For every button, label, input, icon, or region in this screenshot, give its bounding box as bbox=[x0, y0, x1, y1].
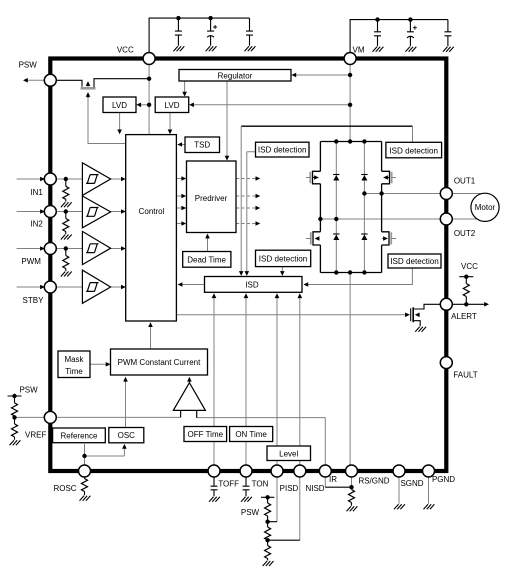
buffer A3 schmitt PWM bbox=[82, 231, 110, 264]
svg-text:PWM Constant Current: PWM Constant Current bbox=[118, 358, 201, 367]
resistor RS current sense external bbox=[325, 477, 357, 511]
svg-text:PSW: PSW bbox=[241, 508, 260, 517]
ground SGND external bbox=[394, 477, 405, 509]
wire Predriver dashed gate drive row4 bbox=[236, 223, 257, 225]
pin TOFF bbox=[208, 465, 220, 477]
pin VCC bbox=[143, 53, 155, 65]
svg-text:STBY: STBY bbox=[23, 296, 45, 305]
svg-text:PWM: PWM bbox=[21, 257, 41, 266]
svg-text:ISD detection: ISD detection bbox=[259, 254, 308, 263]
block TSD bbox=[185, 137, 220, 153]
block ISD detection U5 bbox=[256, 250, 311, 266]
node H-bridge top rail (VM) bbox=[320, 141, 381, 143]
svg-text:PISD: PISD bbox=[280, 484, 299, 493]
pin FAULT bbox=[440, 357, 452, 369]
wire VM sense drop to ISD block top bbox=[240, 126, 242, 273]
wire Control to Predriver row3 bbox=[176, 207, 183, 209]
wire PWM pin input arrow bbox=[17, 248, 42, 250]
wire VM sense bus to ISD detection blocks bbox=[241, 125, 412, 127]
wire body-diode column left bbox=[335, 142, 337, 273]
wire ALERT external output arrow bbox=[452, 302, 489, 307]
wire PWM pin to buffer bbox=[57, 248, 83, 250]
wire buffer4 out to Control bbox=[111, 286, 124, 288]
wire Regulator input from VM node bbox=[293, 74, 350, 76]
pin STBY bbox=[44, 281, 56, 293]
TEXT_START bbox=[19, 46, 496, 517]
diode D2 body diode upper-right bbox=[361, 175, 367, 181]
svg-text:TOFF: TOFF bbox=[218, 480, 239, 489]
svg-text:Predriver: Predriver bbox=[195, 194, 228, 203]
block LVD U2 bbox=[155, 97, 189, 113]
block PWM Constant Current bbox=[111, 349, 208, 375]
diode D3 body diode lower-left bbox=[333, 234, 339, 240]
wire STBY pin input arrow bbox=[17, 286, 42, 288]
block Dead Time bbox=[183, 252, 231, 268]
wire NISD external riser bbox=[299, 477, 301, 540]
wire TOFF pin to ISD block bbox=[213, 296, 215, 465]
wire PISD external riser bbox=[276, 477, 278, 522]
svg-text:ISD: ISD bbox=[245, 281, 259, 290]
block ISD bbox=[205, 277, 303, 293]
wire Control to Predriver row2 bbox=[176, 195, 183, 197]
svg-text:OFF Time: OFF Time bbox=[188, 430, 224, 439]
block LVD U1 bbox=[103, 97, 136, 113]
svg-text:FAULT: FAULT bbox=[453, 371, 477, 380]
svg-text:OUT1: OUT1 bbox=[454, 177, 476, 186]
wire Control to Predriver row4 bbox=[176, 223, 183, 225]
wire OUT1 node to OUT1 pin bbox=[364, 193, 440, 195]
svg-text:VM: VM bbox=[353, 46, 365, 55]
block Control bbox=[126, 135, 177, 321]
svg-text:RS/GND: RS/GND bbox=[358, 477, 389, 486]
svg-text:ON Time: ON Time bbox=[235, 430, 267, 439]
wire body-diode column right bbox=[363, 142, 365, 273]
pin ROSC bbox=[79, 465, 91, 477]
svg-text:IR: IR bbox=[329, 475, 337, 484]
block Reference bbox=[53, 428, 106, 443]
wire ISD detection U6 to ISD block bbox=[306, 268, 412, 285]
capacitor TON external bbox=[241, 477, 252, 502]
wire Control to Predriver row1 bbox=[176, 178, 183, 180]
svg-text:OUT2: OUT2 bbox=[454, 229, 476, 238]
pin OUT1 bbox=[440, 188, 452, 200]
wire OUT2 node to OUT2 pin bbox=[320, 218, 440, 220]
transistor Q3 low-side left bbox=[306, 232, 321, 245]
capacitor C1 VCC bus bbox=[149, 18, 249, 52]
svg-text:NISD: NISD bbox=[305, 484, 324, 493]
transistor Q5 PSW power switch bbox=[57, 79, 150, 98]
buffer A1 schmitt IN1 bbox=[82, 163, 110, 196]
svg-text:ISD detection: ISD detection bbox=[390, 257, 439, 266]
capacitor C2 VCC bus electrolytic bbox=[206, 25, 218, 51]
node H-bridge bottom rail bbox=[320, 272, 381, 274]
pin NISD bbox=[294, 465, 306, 477]
resistor PWM pull-down bbox=[61, 249, 72, 277]
transistor Q1 high-side left bbox=[306, 171, 320, 184]
svg-text:IN1: IN1 bbox=[30, 188, 43, 197]
svg-text:PGND: PGND bbox=[432, 475, 455, 484]
pin RS/GND bbox=[346, 465, 358, 477]
block Predriver bbox=[187, 161, 237, 233]
block ISD detection U3 bbox=[256, 142, 310, 157]
wire VM internal rail (VM pin down to bridge top rail) bbox=[349, 65, 351, 142]
wire PSW pin arrow out bbox=[23, 78, 44, 83]
block Regulator bbox=[179, 70, 291, 82]
svg-text:ROSC: ROSC bbox=[53, 484, 76, 493]
wire H-bridge left column bbox=[319, 142, 321, 273]
svg-text:ALERT: ALERT bbox=[451, 312, 477, 321]
svg-text:Level: Level bbox=[279, 449, 298, 458]
pin TON bbox=[240, 465, 252, 477]
svg-text:ISD detection: ISD detection bbox=[258, 145, 307, 154]
pin SGND bbox=[393, 465, 405, 477]
ground PGND external bbox=[424, 477, 435, 509]
pin ALERT bbox=[440, 298, 452, 310]
svg-text:LVD: LVD bbox=[165, 101, 180, 110]
wire LVD U1 to Control bbox=[119, 113, 121, 133]
wire VM sense drop to ISD detection U4 bbox=[412, 126, 414, 142]
wire bridge center to RS/GND pin bbox=[349, 273, 351, 466]
svg-text:Mask: Mask bbox=[64, 355, 84, 364]
wire Reference to OSC and ROSC bbox=[85, 443, 125, 465]
svg-text:Time: Time bbox=[65, 367, 83, 376]
resistor divider PISD/NISD external bbox=[261, 497, 300, 566]
block ISD detection U6 bbox=[388, 254, 441, 268]
svg-text:OSC: OSC bbox=[118, 431, 136, 440]
op-amp current comparator bbox=[173, 383, 205, 418]
svg-text:Regulator: Regulator bbox=[218, 71, 253, 80]
wire IN1 pin to buffer bbox=[57, 178, 83, 180]
diode D1 body diode upper-left bbox=[333, 175, 339, 181]
pin PGND bbox=[423, 465, 435, 477]
wire ALERT pin to transistor drain bbox=[413, 304, 440, 309]
pin IN1 bbox=[44, 173, 56, 185]
pin IN2 bbox=[44, 206, 56, 218]
svg-text:TON: TON bbox=[252, 480, 269, 489]
wire TSD to Control bbox=[180, 144, 186, 146]
motor M1 bbox=[471, 193, 499, 221]
wire LVD U2 to Control bbox=[169, 113, 171, 133]
resistor divider VREF external bbox=[8, 396, 22, 445]
wire LVD U2 input from VM node bbox=[191, 104, 351, 106]
pin VM bbox=[344, 53, 356, 65]
wire Regulator to LVD U2 bbox=[184, 81, 186, 95]
buffer A4 schmitt STBY bbox=[82, 270, 110, 303]
svg-text:IN2: IN2 bbox=[30, 220, 43, 229]
resistor IN1 pull-down bbox=[61, 179, 72, 207]
wire PWM Constant Current to Control bbox=[150, 325, 152, 350]
wire buffer3 out to Control bbox=[111, 248, 124, 250]
wire OUT1 pin to motor bbox=[452, 193, 481, 195]
block ISD detection U4 bbox=[386, 142, 442, 158]
svg-text:LVD: LVD bbox=[112, 101, 127, 110]
pin PISD bbox=[271, 465, 283, 477]
IC package border bbox=[50, 59, 446, 472]
wire Predriver dashed gate drive row1 bbox=[236, 178, 257, 180]
transistor Q2 high-side right bbox=[382, 171, 396, 184]
wire buffer2 out to Control bbox=[111, 211, 124, 213]
wire Dead Time to Predriver bbox=[207, 236, 209, 252]
wire Predriver dashed gate drive row2 bbox=[236, 195, 257, 197]
svg-text:Reference: Reference bbox=[61, 431, 98, 440]
resistor IN2 pull-down bbox=[61, 212, 72, 240]
resistor ALERT external pull-up bbox=[459, 277, 473, 305]
svg-text:VCC: VCC bbox=[117, 46, 134, 55]
wire ISD detection U3 link to ISD block top bbox=[247, 152, 256, 273]
wire NISD pin to ISD block bbox=[299, 296, 301, 465]
pin IR bbox=[319, 465, 331, 477]
capacitor C4 VM bus bbox=[350, 20, 448, 53]
wire comparator output to PWM Constant Current bbox=[188, 379, 190, 383]
pin PWM bbox=[44, 243, 56, 255]
capacitor C5 VM bus electrolytic bbox=[405, 26, 417, 52]
block OSC bbox=[109, 428, 144, 443]
wire comparator input from IR pin bbox=[197, 410, 326, 465]
wire LVD U1 input from VCC node bbox=[138, 104, 149, 106]
diode D4 body diode lower-right bbox=[361, 234, 367, 240]
svg-text:SGND: SGND bbox=[400, 479, 423, 488]
svg-text:TSD: TSD bbox=[194, 141, 210, 150]
wire PISD pin to ISD block bbox=[276, 296, 278, 465]
pin PSW bbox=[44, 74, 56, 86]
transistor Q6 ALERT open drain bbox=[411, 307, 421, 326]
wire ISD detection U5 to ISD block bbox=[281, 267, 283, 273]
buffer A2 schmitt IN2 bbox=[82, 196, 110, 228]
transistor Q4 low-side right bbox=[382, 232, 397, 245]
wire IN2 pin to buffer bbox=[57, 211, 83, 213]
wire H-bridge right column bbox=[381, 142, 383, 273]
wire IN1 pin input arrow bbox=[17, 178, 42, 180]
wire ISD to Control bbox=[180, 284, 205, 286]
capacitor C3 VCC bus bbox=[245, 31, 256, 51]
resistor ROSC external bbox=[80, 477, 91, 501]
capacitor TOFF external bbox=[209, 477, 220, 502]
block Level bbox=[267, 446, 311, 461]
pin circles bbox=[44, 53, 452, 478]
wire STBY pin to buffer bbox=[57, 286, 83, 288]
wire OUT2 pin to motor bbox=[452, 218, 478, 220]
wire OSC to PWM Constant Current bbox=[125, 379, 127, 428]
block ON Time bbox=[230, 427, 273, 442]
wire Predriver dashed gate drive row3 bbox=[236, 207, 257, 209]
svg-text:ISD detection: ISD detection bbox=[389, 146, 438, 155]
block Mask Time bbox=[58, 351, 90, 378]
wire VCC internal rail (VCC pin down to Control) bbox=[148, 65, 150, 135]
svg-text:VREF: VREF bbox=[25, 430, 46, 439]
capacitor C6 VM bus bbox=[443, 32, 454, 52]
wire IN2 pin input arrow bbox=[17, 211, 42, 213]
arrowheads for signal wires bbox=[40, 73, 410, 449]
wire Control to ALERT transistor gate bbox=[176, 314, 407, 316]
svg-text:Dead Time: Dead Time bbox=[187, 256, 226, 265]
svg-text:Motor: Motor bbox=[475, 203, 496, 212]
wire buffer1 out to Control bbox=[111, 178, 124, 180]
svg-text:VCC: VCC bbox=[461, 262, 478, 271]
wire TON pin to ISD block bbox=[245, 296, 247, 465]
block OFF Time bbox=[184, 427, 227, 442]
svg-text:PSW: PSW bbox=[19, 386, 38, 395]
ground ALERT transistor source bbox=[415, 327, 426, 332]
wire VREF to comparator inverting input bbox=[15, 410, 181, 417]
pin VREF bbox=[44, 411, 56, 423]
svg-text:PSW: PSW bbox=[19, 61, 38, 70]
wire PSW switch to Control bbox=[88, 94, 126, 144]
wire Mask Time to PWM Constant Current bbox=[90, 363, 108, 365]
wire Regulator to Predriver bbox=[226, 81, 228, 159]
pin OUT2 bbox=[440, 213, 452, 225]
svg-text:Control: Control bbox=[139, 207, 165, 216]
